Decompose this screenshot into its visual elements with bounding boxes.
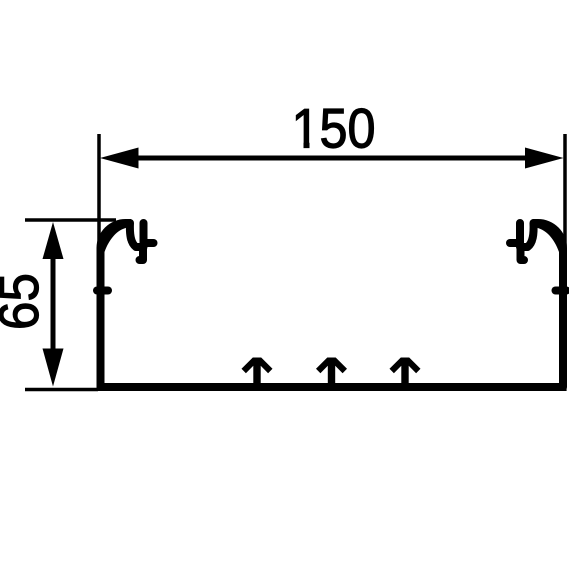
svg-text:150: 150	[292, 96, 376, 159]
svg-text:65: 65	[0, 273, 50, 330]
